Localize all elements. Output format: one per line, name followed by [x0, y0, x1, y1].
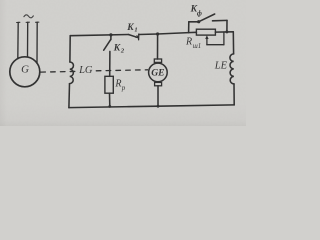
- shaft coupling dashed line, right part: [96, 70, 147, 71]
- svg-text:K: K: [126, 23, 134, 33]
- svg-text:2: 2: [120, 48, 125, 55]
- svg-text:1: 1: [134, 27, 137, 34]
- generator G circle: [10, 57, 40, 87]
- svg-text:ш1: ш1: [193, 43, 202, 50]
- svg-text:K: K: [113, 43, 121, 53]
- switch K1 fixed contact tick: [138, 34, 140, 40]
- AC network symbol ~: [24, 15, 33, 18]
- wire: phase line 3: [36, 22, 38, 63]
- Rsh1 wiper arrow: [206, 37, 208, 44]
- node: GE / bottom bus junction: [157, 105, 160, 108]
- svg-text:LE: LE: [214, 60, 228, 71]
- svg-text:GE: GE: [151, 67, 164, 78]
- inductor LE (exciter field winding): [230, 54, 234, 84]
- wire: K2 to Rp resistor: [109, 51, 111, 76]
- wire: top bus, K1 to GE node: [139, 33, 158, 36]
- switch K1 blade (closed): [129, 35, 139, 38]
- wire: wiper vertical up: [223, 32, 225, 45]
- wire: right branch corner down to LE: [232, 32, 234, 54]
- svg-text:ф: ф: [197, 10, 202, 18]
- shaft coupling dashed line (G to GE), left part: [41, 70, 78, 73]
- svg-text:R: R: [114, 78, 121, 89]
- wire: Rsh1 right lead: [215, 31, 233, 33]
- node: top bus / Rp branch junction: [109, 33, 112, 36]
- exciter GE circle: [149, 63, 168, 82]
- wire: K2 upper stub: [110, 35, 112, 40]
- svg-text:p: p: [121, 84, 126, 92]
- svg-text:G: G: [21, 63, 29, 75]
- wire: GE armature top lead: [157, 34, 159, 59]
- inductor LG (generator field winding): [70, 62, 74, 84]
- svg-text:LG: LG: [78, 65, 93, 76]
- wire: bottom bus: [69, 105, 234, 108]
- GE bottom brush: [155, 82, 162, 85]
- switch Kf blade (open): [199, 14, 214, 21]
- wire: stub to Kf pivot: [189, 21, 198, 23]
- wire: left branch upper (corner to LG coil): [69, 36, 71, 62]
- switch Kf pivot contact: [197, 20, 200, 23]
- wire: LE to bottom-right corner: [233, 84, 235, 105]
- wire: top bus, GE node to right block node: [158, 33, 189, 34]
- wire: node to Rsh1: [189, 31, 197, 33]
- resistor Rsh1 (adjustable): [196, 29, 215, 35]
- wire: right block left stub: [188, 22, 190, 33]
- GE top brush: [154, 59, 161, 62]
- node: Kf / Rsh1 right junction: [225, 30, 228, 33]
- node: top bus / GE armature junction: [156, 32, 159, 35]
- wire: Rp to bottom bus: [109, 93, 111, 106]
- wire: top bus, left segment (to K1): [70, 35, 129, 36]
- wire: phase line 1: [17, 22, 19, 58]
- svg-text:R: R: [185, 37, 192, 48]
- wire: left branch lower (LG to bottom bus): [68, 84, 71, 108]
- wire: GE armature bottom lead: [157, 86, 159, 106]
- node: Rp / bottom bus junction: [108, 105, 111, 108]
- wire: Kf fixed side: [213, 19, 228, 21]
- wire: Kf right stub down: [226, 20, 228, 32]
- paper background: [0, 0, 246, 126]
- switch K2 blade (open): [104, 40, 111, 51]
- wire: phase line 2: [27, 22, 29, 57]
- phase line terminal ticks: [17, 21, 39, 23]
- resistor Rp: [105, 76, 113, 93]
- wire: wiper horizontal: [207, 44, 224, 46]
